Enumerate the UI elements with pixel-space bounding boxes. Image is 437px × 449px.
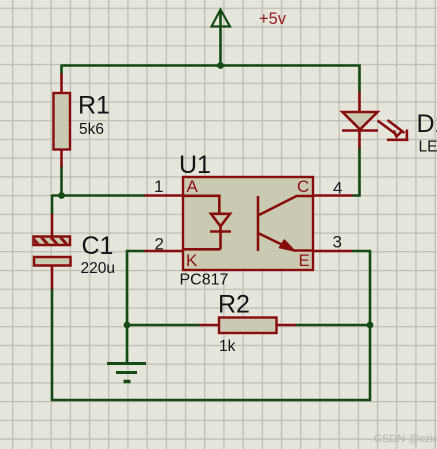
svg-text:4: 4 <box>333 179 342 198</box>
svg-text:A: A <box>187 177 199 196</box>
svg-text:E: E <box>299 251 310 270</box>
svg-text:+5v: +5v <box>259 10 287 28</box>
svg-text:C1: C1 <box>82 232 114 260</box>
svg-text:2: 2 <box>155 235 164 254</box>
svg-text:K: K <box>186 251 198 270</box>
svg-text:5k6: 5k6 <box>79 121 104 138</box>
svg-text:R2: R2 <box>218 291 250 319</box>
svg-text:PC817: PC817 <box>180 272 229 289</box>
svg-text:C: C <box>297 177 309 196</box>
svg-text:3: 3 <box>333 233 342 252</box>
svg-text:LED: LED <box>419 139 437 156</box>
svg-text:220u: 220u <box>81 260 115 277</box>
svg-text:CSDN @cziai: CSDN @cziai <box>374 433 437 445</box>
svg-text:D1: D1 <box>417 110 437 138</box>
svg-text:1k: 1k <box>219 338 236 355</box>
svg-text:R1: R1 <box>78 92 110 120</box>
svg-text:U1: U1 <box>179 151 211 179</box>
svg-text:1: 1 <box>154 177 163 196</box>
